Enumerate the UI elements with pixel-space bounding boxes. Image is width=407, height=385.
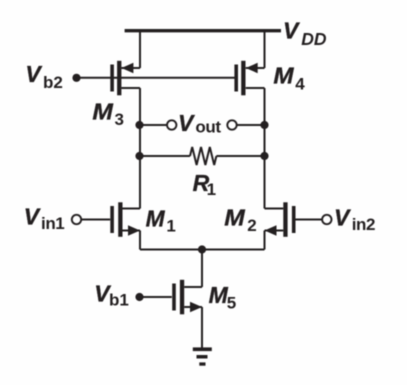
pmos M3 channel bar [117,61,121,96]
wire left branch (M3 drain to M1 drain) [139,88,141,209]
wire M2 gate lead [296,219,323,221]
wire Vout left [140,124,168,126]
ground bar 3 [199,362,205,365]
svg-text:M: M [224,205,245,231]
wire right branch (M4 drain to M2 drain) [264,88,266,209]
wire M5 source to ground [201,307,203,349]
svg-text:out: out [195,118,221,137]
pmos M4 gate bar [234,65,238,92]
svg-text:V: V [334,204,351,230]
svg-text:b1: b1 [109,291,129,310]
nmos M5 gate bar [172,284,176,311]
nmos M2 source arrow [265,225,277,235]
label R1 [193,170,216,199]
svg-text:M: M [273,63,294,89]
svg-text:V: V [24,204,41,230]
wire M1 source lead [123,230,141,232]
nmos M2 gate bar [292,206,296,233]
node dot R1 left junction [135,152,143,160]
svg-text:DD: DD [301,29,327,49]
pmos M4 source arrow [246,63,258,73]
wire common source row [140,249,265,251]
nmos M1 channel bar [118,202,122,237]
wire Vb2 gate bias [77,77,235,79]
terminal circle Vin1 [72,215,81,224]
wire R1 right lead [216,155,264,157]
label Vin1 [24,204,65,233]
svg-text:V: V [25,61,42,87]
wire tail node to M5 drain [201,250,203,288]
nmos M1 source arrow [128,225,140,235]
wire M5 drain lead [184,286,202,288]
node dot Vout right junction [260,121,268,129]
label M5 [209,282,237,312]
node dot R1 right junction [260,152,268,160]
ground bar 1 [193,347,212,351]
wire M2 source down [264,231,266,250]
label M4 [273,63,305,94]
svg-text:V: V [283,18,300,44]
wire M3 source to rail [139,31,141,68]
label M1 [146,205,176,235]
wire M4 source lead [246,67,265,69]
label Vb2 [25,61,62,92]
wire M4 source to rail [264,31,266,68]
nmos M5 channel bar [180,280,184,315]
wire Vout right [237,124,265,126]
nmos M2 channel bar [283,202,287,237]
terminal circle Vout right [227,120,236,129]
svg-text:M: M [146,205,166,231]
label VDD [283,18,327,49]
wire M5 gate lead [140,296,172,298]
node dot tail junction [198,245,206,253]
resistor R1 zigzag [190,147,216,165]
label M2 [224,205,256,236]
svg-text:5: 5 [227,293,236,312]
svg-text:in2: in2 [352,215,375,234]
nmos M1 gate bar [110,206,114,233]
VDD rail [125,29,281,32]
svg-text:4: 4 [295,74,305,93]
wire R1 left lead [140,155,191,157]
node dot Vb2 terminal [72,74,80,82]
wire M4 drain lead [246,87,265,89]
node dot Vb1 terminal [135,293,143,301]
svg-text:in1: in1 [41,214,64,233]
svg-text:3: 3 [115,110,124,129]
ground bar 2 [197,355,208,359]
svg-text:1: 1 [207,180,216,199]
pmos M3 gate bar [110,65,114,92]
wire M1 drain lead [123,208,141,210]
svg-text:1: 1 [166,217,175,236]
node dot Vout left junction [135,121,143,129]
wire M1 gate lead [81,219,110,221]
svg-text:M: M [92,99,113,125]
nmos M5 source arrow [190,302,202,312]
pmos M3 source arrow [121,63,133,73]
label Vb1 [94,280,129,309]
wire M1 source down [139,231,141,250]
wire M3 drain lead [121,87,140,89]
label M3 [92,99,124,129]
label Vin2 [334,204,375,234]
terminal circle Vout left [167,120,176,129]
label Vout [178,110,221,137]
pmos M4 channel bar [241,61,245,96]
svg-text:M: M [209,282,229,308]
svg-text:b2: b2 [43,73,63,92]
svg-text:2: 2 [247,216,256,235]
svg-text:V: V [178,110,195,136]
wire M5 source lead [184,306,202,308]
wire M3 source lead [121,67,140,69]
wire M2 drain lead [265,208,284,210]
wire M2 source lead [265,230,284,232]
terminal circle Vin2 [322,215,331,224]
